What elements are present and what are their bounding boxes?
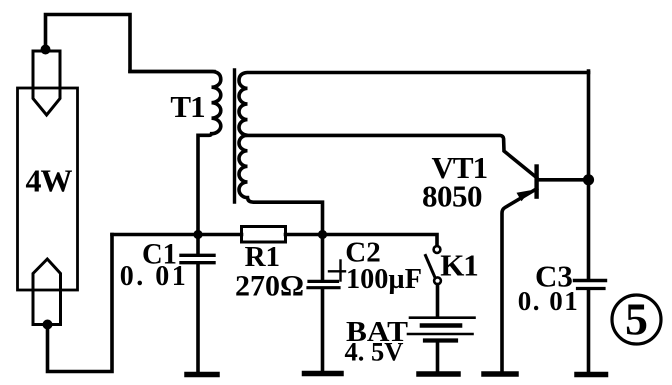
svg-text:270Ω: 270Ω <box>235 271 304 303</box>
transformer T1 primary winding <box>130 72 221 235</box>
transistor VT1 collector <box>537 178 589 182</box>
wire battery to ground bar <box>436 342 440 372</box>
node A junction (T1 primary / C1 / R1) <box>193 230 202 239</box>
svg-text:4. 5V: 4. 5V <box>345 337 404 367</box>
lamp top electrode <box>33 51 60 115</box>
wire right rail top (collector rail) <box>587 71 591 280</box>
svg-text:4W: 4W <box>26 163 73 199</box>
svg-text:K1: K1 <box>440 248 478 283</box>
wire lamp top to transformer primary <box>46 15 215 72</box>
capacitor C1 <box>181 235 214 373</box>
ground bar under C3 <box>577 372 606 378</box>
ground bar under C1 <box>187 372 217 378</box>
capacitor C3 <box>575 281 606 373</box>
transistor VT1 emitter with arrow <box>502 189 537 372</box>
lamp bottom electrode <box>33 259 61 325</box>
label figure number 5 <box>612 294 661 345</box>
svg-text:0. 01: 0. 01 <box>518 286 580 316</box>
transformer T1 secondary winding <box>239 73 589 235</box>
svg-text:0. 01: 0. 01 <box>120 261 189 292</box>
capacitor C2 (electrolytic) <box>308 235 339 373</box>
lamp 4W tube <box>18 88 78 290</box>
ground bar under emitter <box>484 371 516 377</box>
transformer T1 core <box>233 70 236 202</box>
node B junction (secondary bottom / C2 / K1) <box>318 230 327 239</box>
wire node B to switch K1 <box>323 235 438 246</box>
svg-text:T1: T1 <box>170 89 204 124</box>
node bottom lamp junction <box>43 320 53 330</box>
transistor VT1 emitter arrowhead <box>517 190 531 201</box>
battery BAT <box>408 318 475 341</box>
svg-text:8050: 8050 <box>422 179 482 214</box>
wire K1 to battery <box>436 285 440 317</box>
wire secondary centre tap to transistor base <box>248 135 537 177</box>
wire lamp bottom return <box>48 235 113 372</box>
ground bar under battery <box>419 371 458 377</box>
svg-text:100µF: 100µF <box>346 263 422 295</box>
C2 polarity plus sign <box>329 261 345 281</box>
transistor VT1 base bar <box>534 167 538 197</box>
resistor R1 <box>242 227 286 243</box>
ground bar under C2 <box>305 371 342 377</box>
svg-text:R1: R1 <box>245 241 280 273</box>
wire node A to R1 <box>198 233 242 237</box>
wire mid rail from lamp return to node A <box>112 233 198 237</box>
svg-text:5: 5 <box>625 294 648 345</box>
node top lamp junction <box>41 45 51 55</box>
node collector junction <box>583 174 594 185</box>
switch K1 <box>426 246 441 284</box>
wire R1 to node B <box>286 233 323 237</box>
